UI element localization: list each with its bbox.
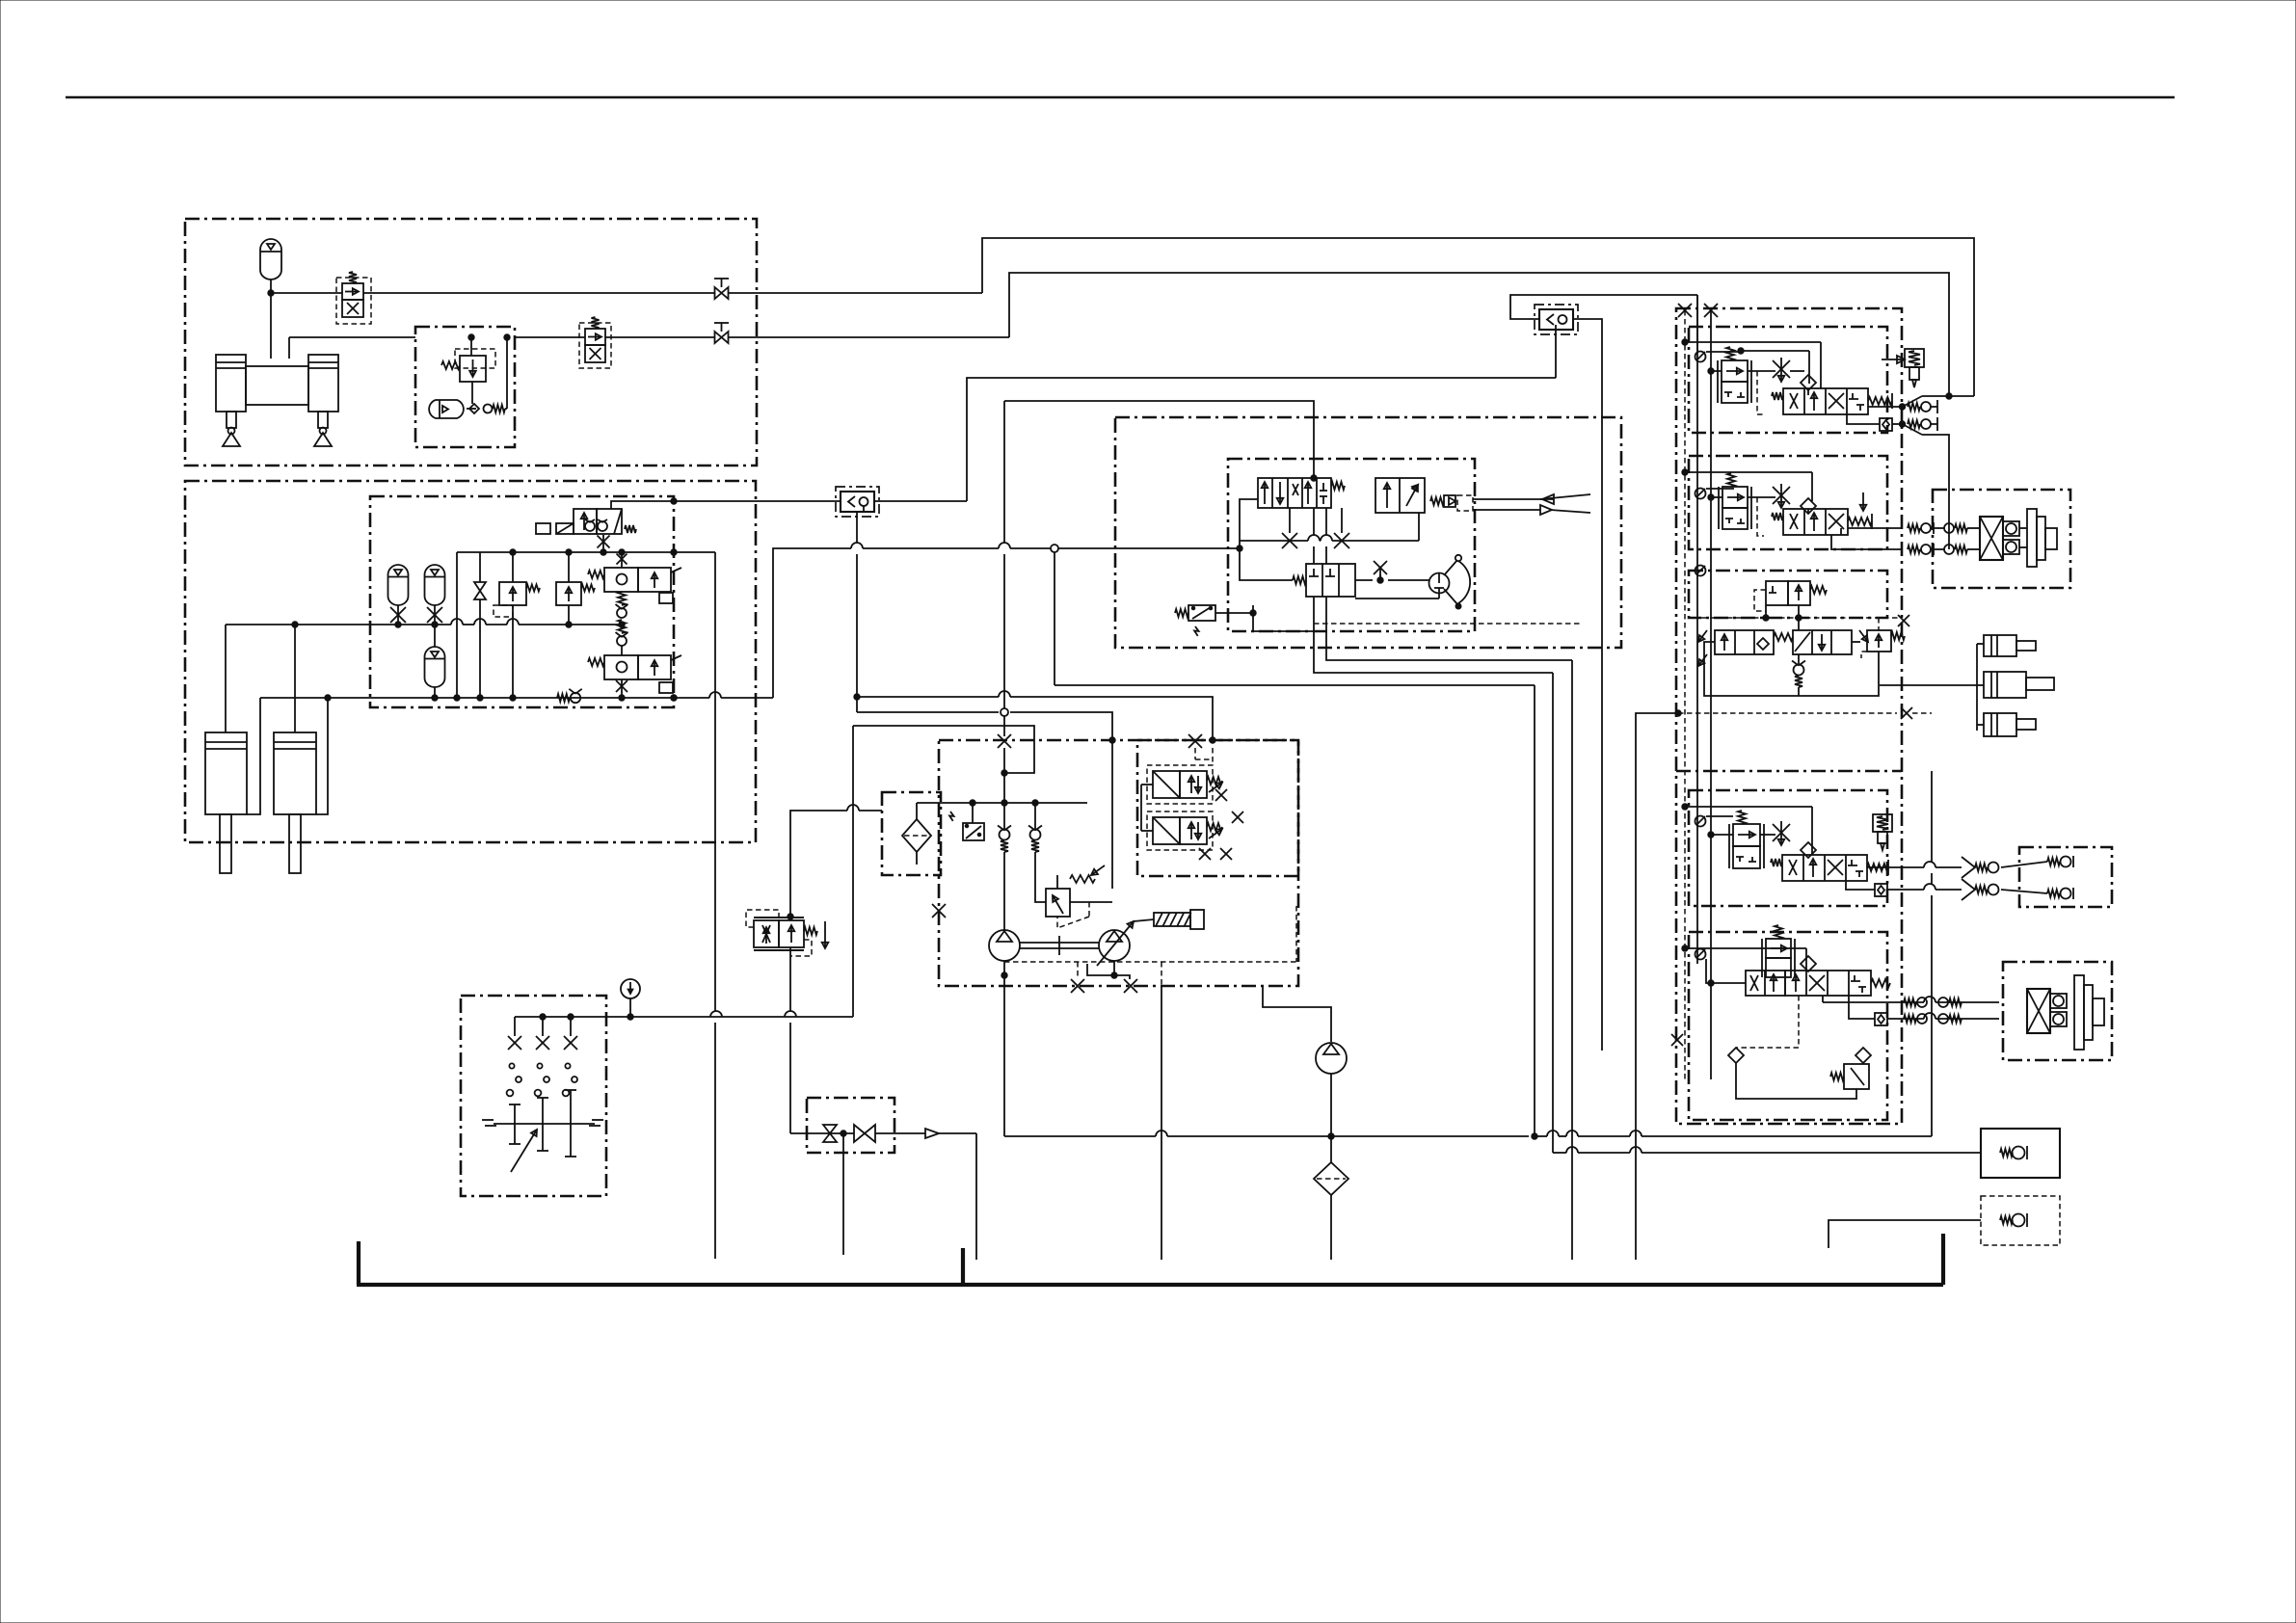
filter F1 [902, 819, 931, 852]
wire: cyl2 feed [294, 625, 296, 732]
arrow down beside FC1 [824, 921, 826, 948]
wire: x=1094 to drain header [1055, 684, 1535, 686]
wire: anti-cavitation bracket [1903, 396, 1923, 407]
valve: solenoid check SC1 [617, 554, 627, 565]
check diamond S5 [1801, 956, 1816, 971]
wire: S4 drain riser [1931, 771, 1933, 862]
wire: S5 outputs [1822, 996, 1824, 1002]
wire: top distribution P2 right [1009, 273, 1949, 396]
check valve CV4 [1034, 803, 1036, 829]
wire: S4 comp feed [1711, 834, 1733, 836]
fan pump FP1 [1316, 1043, 1347, 1074]
wire: case drain riser x=1205 [1161, 986, 1162, 1260]
anchor foot left [228, 428, 235, 435]
port funnel S4-B [1962, 879, 1975, 900]
valve: pressure reducing RV1 [460, 356, 486, 382]
box: valve section S5 (dash-dot) [1689, 932, 1887, 1120]
wire: SOL-1 top to L1 [611, 501, 674, 509]
diamond box S1 [1880, 418, 1892, 431]
LS bus (dashed) [1684, 310, 1686, 1079]
brake shuttle box T1 [1980, 517, 2003, 560]
check below swing spool [1794, 665, 1804, 676]
wire: solid link to drain riser [1636, 713, 1678, 1260]
box: suspension valve manifold (inner dash-dot) [370, 496, 674, 707]
wire: FD2 right drop [1573, 319, 1602, 1051]
valve: swing spool right [1793, 630, 1852, 654]
valve: throttle-check V1 [342, 283, 363, 300]
wire: pump drain to fan pump [1004, 1135, 1156, 1137]
wire: inner return bus [1240, 540, 1308, 542]
wire: S1 outputs [1868, 406, 1902, 408]
accumulator A5 [425, 647, 445, 687]
compensator valve CP2 [1722, 487, 1748, 508]
pilot port S1 [1695, 352, 1706, 362]
cyl K2 [1984, 672, 2026, 698]
wire: S5 pilot feed [1706, 959, 1746, 983]
box: pilot reservoir unit (inner dash-dot) [415, 327, 515, 447]
ports to steering (arrows) [1473, 498, 1554, 500]
lube droplets [509, 1063, 514, 1068]
lube orifice X3 [564, 1036, 577, 1050]
wire L3 suspension supply [671, 695, 677, 701]
cyl K1 [1984, 635, 2016, 656]
spool valve S1 [1783, 388, 1868, 414]
wire: bottom drain lines [1552, 673, 1554, 1153]
wire L4 sensor drop [856, 512, 858, 543]
box: valve section S4 (dash-dot) [1689, 790, 1887, 906]
wire: pilot line P2 y=350 [289, 336, 415, 338]
box: accumulator charge circuit (top-left, dash-dot) [185, 219, 757, 466]
box: swing valve block (inner dash-dot) [1228, 459, 1475, 631]
wire: top distribution P1 right [982, 238, 1974, 396]
box: gear lubrication (dash-dot) [461, 996, 606, 1196]
gate valve GV2 [854, 1125, 865, 1142]
cylinder CYL-B (right) [308, 355, 338, 412]
check L2 [2047, 890, 2060, 897]
wire: S2 comp feed [1711, 496, 1722, 498]
check diamond S2 [1801, 498, 1816, 514]
pump shaft [1020, 942, 1099, 944]
pilot port S2 [1695, 489, 1706, 499]
box: proportional valve block (inner dash-dot) [1137, 740, 1298, 876]
box: swing/fan motor circuit (outer dash-dot) [1115, 417, 1621, 648]
pressure bus [1710, 310, 1712, 1079]
port X in shutoff box [823, 1125, 837, 1133]
wire: y=1179 drain [1535, 1135, 1547, 1137]
port check S1-B [1899, 421, 1905, 427]
lube orifice X1 [508, 1036, 521, 1050]
pressure gauge G1 [621, 979, 640, 998]
wire: bus y=724 [260, 697, 370, 699]
wire: long dashed pilot y=740 [1678, 712, 1897, 714]
wire: E top X to bus [1003, 748, 1005, 803]
box: suspension circuit (left-middle, dash-dot) [185, 481, 756, 842]
pilot dashed under pumps [1004, 961, 1296, 963]
valve: LS regulator REG1 [1046, 889, 1070, 917]
check diamond S4 [1801, 842, 1816, 858]
box: valve section S1 (dash-dot) [1689, 327, 1887, 433]
wire: y=1196 drain to check box [1553, 1152, 1566, 1154]
valve: flow control solenoid FC1 [859, 810, 882, 811]
spool valve S5 [1746, 971, 1785, 996]
valve: proportional solenoid PV2 [1153, 817, 1180, 844]
valve: swing brake SB1 [1766, 581, 1788, 605]
pump P1 (fixed) [989, 930, 1020, 961]
relief valve S3 [1867, 630, 1891, 652]
wire: pilot line P1 y=304 [271, 292, 342, 294]
diamond box S4 [1875, 884, 1887, 896]
relief valve RLF2 [556, 582, 581, 605]
wire: gate valve feed [790, 1132, 854, 1134]
port X on valve top 1 [1678, 304, 1692, 317]
wire: S2 outputs [1840, 528, 1842, 535]
return filter F2 [1314, 1162, 1348, 1195]
box: main control valve (outer dash-dot) [1676, 308, 1902, 1124]
stroke actuator [1154, 913, 1190, 926]
wire: S3 loop [1704, 642, 1799, 696]
wire: filter bus [917, 802, 1087, 804]
port funnel S4-A [1962, 857, 1975, 878]
wire: drain header drop [1534, 685, 1535, 1136]
wire: x=1154 drop [1111, 740, 1113, 889]
port X S3 [1898, 615, 1909, 626]
cylinder CYL-A (left) [216, 355, 246, 412]
pilot dashed links PV [1212, 748, 1214, 765]
wire: REG drain jog [1087, 964, 1130, 979]
check diamond S5 drain [1728, 1048, 1744, 1063]
wire: bus y=648 [226, 624, 451, 625]
accumulator A1 [260, 239, 281, 279]
header rule [66, 96, 2175, 99]
port checks S2 [1908, 524, 1920, 532]
box: makeup check N (solid) [1981, 1129, 2060, 1178]
wire: y=1266 to check box O [1829, 1220, 1981, 1248]
check valve CV3 [1003, 803, 1005, 829]
wire: S1 comp feed [1711, 370, 1722, 372]
port X below SC2 [616, 680, 627, 692]
wire: MV1 to MV3 links [1313, 508, 1315, 535]
gate valve GV1 [474, 582, 486, 591]
flow damper FD2 [1539, 309, 1573, 330]
wire: pump2 bottom stub [1113, 961, 1115, 975]
pressure switch PS2 [963, 823, 984, 840]
wire: FD2 left to manifold [1510, 295, 1697, 319]
pilot bus segment [1696, 295, 1698, 964]
diamond box S5 [1875, 1013, 1887, 1025]
compensator valve CP4 [1766, 939, 1791, 958]
wire: drain drop x=742 [714, 552, 716, 1011]
port check S1-A [1899, 404, 1905, 410]
brake shuttle box T2 [2027, 989, 2050, 1033]
anchor foot right [320, 428, 327, 435]
wire: cyl1 feed [225, 625, 227, 732]
valve: swing spool left [1715, 630, 1774, 654]
box: valve section S3 (dash-dot) [1689, 571, 1887, 618]
motor cylinder T2 [2074, 975, 2084, 1050]
port X pair under MV1 [1282, 533, 1297, 548]
wire L1 pilot supply [674, 500, 841, 502]
wire: FC1 drop to gate valve [789, 947, 791, 1011]
check L1 [2047, 858, 2060, 865]
wire L6 swing feed [1004, 401, 1314, 478]
valve: solenoid valve SOL-1 (top) [574, 509, 597, 534]
wire: fan pump suction [1330, 1074, 1332, 1162]
check diamond S5 drain2 [1855, 1048, 1871, 1063]
variable orifice S1 [1773, 360, 1790, 378]
arrow to tank [925, 1129, 939, 1138]
accumulator A3 [388, 565, 409, 605]
box: shutoff valve unit (dash-dot) [807, 1098, 894, 1153]
valve: priority valve MV2 [1375, 478, 1425, 513]
wire: manifold sub-bus y=573 [457, 551, 674, 553]
thermal relief S1 [1905, 349, 1924, 367]
port X right of MV3 [1374, 561, 1387, 574]
port X2 on pump box top [1188, 734, 1202, 748]
pilot port S3 [1695, 566, 1706, 576]
wire: gate box drain [842, 1133, 844, 1255]
relief valve S5 [1844, 1064, 1869, 1089]
wire: pump drains [1003, 961, 1005, 1136]
wire: y=739 to pump [857, 711, 999, 713]
thermal relief S4 [1873, 814, 1892, 832]
arrow down S2 [1862, 492, 1864, 511]
wire: S2 pilot lines [1685, 471, 1812, 473]
lightning PS1 [1194, 626, 1199, 636]
port X on valve top 2 [1704, 304, 1718, 317]
wire: link bus to bus [456, 552, 458, 698]
relief valve RLF1 [499, 582, 526, 605]
pilot port S4 [1695, 816, 1706, 827]
compensator valve CP3 [1733, 824, 1760, 846]
port checks S5 [1904, 998, 1916, 1006]
lube orifice X2 [536, 1036, 549, 1050]
check valve CV1 [469, 404, 479, 413]
wire L2 drain from manifold [674, 551, 715, 553]
wire: S3 dashed crossbus [1693, 617, 1900, 619]
shutoff valve SV1 [715, 287, 722, 299]
check valve on bus CV2 [557, 694, 570, 702]
cylinder CYL-D (right) [274, 732, 316, 814]
pump P2 (variable) [1099, 930, 1130, 961]
wire: S5 pilot lines [1685, 947, 1806, 949]
swing cylinders K [1976, 644, 1978, 731]
box: valve section S2 (dash-dot) [1689, 456, 1887, 549]
pilot port S5 [1695, 949, 1706, 960]
wire: lube feed bus [515, 1016, 853, 1018]
wire: swing drains [1313, 597, 1315, 631]
accumulator A4 [425, 565, 445, 605]
cylinder CYL-C (left) [205, 732, 247, 814]
wire: tank riser x=885 [852, 726, 854, 1017]
lube arrow [511, 1130, 537, 1172]
box: travel motor T2 (dash-dot) [2003, 962, 2112, 1060]
valve: shuttle relief MV3 [1306, 564, 1355, 597]
box: travel motor T1 (dash-dot) [1933, 490, 2070, 588]
port X S5 left [1671, 1034, 1683, 1046]
wire: S5 bottom loop [1736, 1063, 1856, 1099]
accumulator A2 (horizontal) [429, 400, 464, 418]
shutoff valve SV2 [715, 332, 722, 343]
spool valve S4 [1782, 855, 1867, 881]
manifold block between cylinders [246, 366, 308, 405]
valve: proportional solenoid PV1 [1153, 771, 1180, 798]
wire: S4 outputs [1867, 866, 1924, 868]
wire: cyl2 rod line [316, 698, 328, 814]
compensator valve CP1 [1722, 360, 1748, 382]
valve: solenoid check SC2 [604, 655, 638, 679]
wire: S4 pilot lines [1685, 806, 1812, 808]
flow damper FD1 [841, 492, 874, 512]
tank baffle [961, 1248, 965, 1285]
box: boom check unit (dash-dot) [2019, 847, 2112, 907]
wire: motor return [1355, 598, 1439, 599]
port X on pump box top [998, 734, 1011, 748]
cyl K3 [1984, 713, 2016, 736]
variable orifice S2 [1773, 487, 1790, 504]
check chain between SC1/SC2 [618, 592, 626, 605]
variable orifice S4 [1773, 824, 1790, 841]
port X on pump box left [932, 904, 946, 918]
wire: swing motor line [1880, 684, 1977, 686]
gear train [494, 1123, 595, 1125]
spool valve S2 [1783, 509, 1848, 535]
wire: motor line [1388, 579, 1429, 581]
box: makeup check O (dashed) [1981, 1196, 2060, 1245]
wire: fan pump feed elbow [1263, 986, 1331, 1042]
pilot X ports right of PV [1215, 789, 1227, 801]
wire: S1 pilot lines [1685, 341, 1821, 343]
valve: main control spool MV1 [1258, 478, 1331, 508]
wire: cyl1 rod line [247, 698, 260, 814]
wire: accumulator stem [270, 279, 272, 359]
wire L5 node drop [1054, 552, 1055, 685]
spring between swing spools [1774, 633, 1793, 641]
box: suction filter (dash-dot) [882, 792, 941, 875]
tank reservoir [357, 1241, 360, 1285]
port X below SOL-1 [598, 536, 610, 548]
divider between valve blocks [1676, 770, 1902, 773]
valve: throttle-check V2 [585, 329, 605, 345]
fan motor M1 [1429, 573, 1450, 594]
wire: swing valve loop [1240, 499, 1293, 580]
pilot dashed y=647 in swing box [1314, 623, 1582, 625]
motor cylinder T1 [2027, 509, 2037, 567]
box: pump unit (dash-dot) [939, 740, 1298, 986]
suction loop [853, 726, 1034, 773]
pressure switch PS1 [1188, 605, 1215, 621]
check diamond S1 [1801, 375, 1816, 390]
